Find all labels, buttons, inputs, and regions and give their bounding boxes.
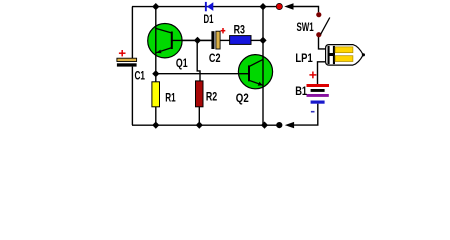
- svg-text:R1: R1: [165, 90, 175, 104]
- svg-text:Q1: Q1: [176, 56, 188, 70]
- svg-text:LP1: LP1: [295, 51, 312, 65]
- svg-text:C2: C2: [209, 51, 221, 65]
- svg-text:SW1: SW1: [297, 20, 314, 34]
- svg-text:R3: R3: [234, 22, 246, 36]
- svg-text:Q2: Q2: [236, 91, 249, 105]
- svg-text:D1: D1: [204, 12, 214, 26]
- svg-text:C1: C1: [135, 69, 146, 83]
- svg-text:B1: B1: [295, 84, 307, 98]
- svg-text:R2: R2: [206, 90, 217, 104]
